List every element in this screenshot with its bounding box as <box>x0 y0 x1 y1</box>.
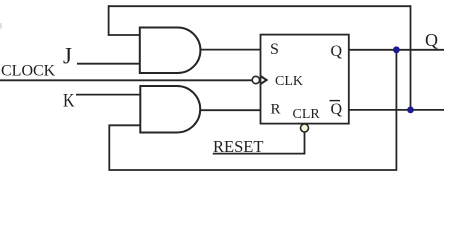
svg-text:CLOCK: CLOCK <box>1 63 56 80</box>
svg-text:CLK: CLK <box>275 74 303 89</box>
svg-text:CLR: CLR <box>293 107 321 122</box>
svg-text:K: K <box>63 91 75 112</box>
svg-text:Q: Q <box>425 30 438 50</box>
svg-text:Q: Q <box>331 43 343 60</box>
svg-text:J: J <box>63 44 72 69</box>
svg-text:RESET: RESET <box>213 137 263 156</box>
svg-text:S: S <box>270 41 279 58</box>
svg-text:Q: Q <box>331 101 343 118</box>
svg-text:R: R <box>271 102 281 118</box>
